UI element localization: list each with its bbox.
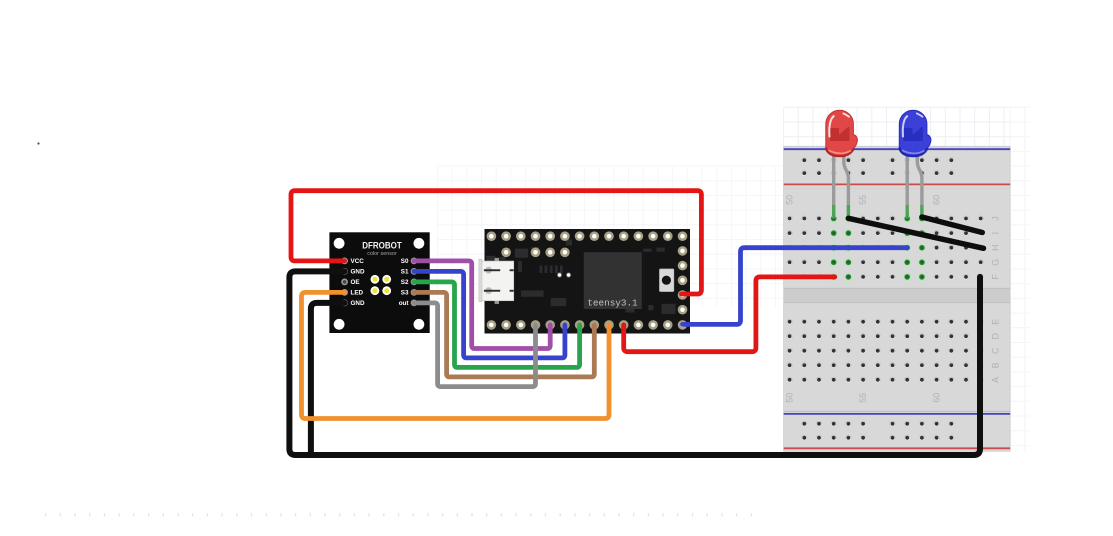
svg-text:F: F bbox=[991, 274, 1001, 280]
svg-text:J: J bbox=[991, 216, 1001, 221]
svg-text:C: C bbox=[991, 347, 1001, 354]
svg-text:H: H bbox=[991, 244, 1001, 251]
svg-text:G: G bbox=[991, 259, 1001, 266]
svg-text:55: 55 bbox=[858, 393, 868, 403]
svg-text:D: D bbox=[991, 333, 1001, 340]
svg-text:E: E bbox=[991, 319, 1001, 325]
svg-text:50: 50 bbox=[785, 195, 795, 205]
svg-text:50: 50 bbox=[785, 393, 795, 403]
svg-text:S2: S2 bbox=[401, 279, 409, 286]
svg-text:LED: LED bbox=[351, 290, 364, 297]
svg-text:GND: GND bbox=[351, 269, 365, 276]
svg-text:teensy3.1: teensy3.1 bbox=[587, 297, 638, 308]
svg-text:DFROBOT: DFROBOT bbox=[362, 240, 402, 250]
svg-text:S3: S3 bbox=[401, 290, 409, 297]
svg-text:VCC: VCC bbox=[351, 258, 365, 265]
svg-text:OE: OE bbox=[351, 279, 360, 286]
svg-text:I: I bbox=[991, 232, 1001, 235]
svg-text:60: 60 bbox=[932, 195, 942, 205]
svg-text:55: 55 bbox=[858, 195, 868, 205]
svg-text:60: 60 bbox=[932, 393, 942, 403]
svg-text:out: out bbox=[399, 300, 410, 307]
svg-text:S0: S0 bbox=[401, 258, 409, 265]
svg-text:A: A bbox=[991, 377, 1001, 383]
svg-text:color sensor: color sensor bbox=[367, 251, 397, 257]
svg-text:GND: GND bbox=[351, 300, 365, 307]
svg-text:S1: S1 bbox=[401, 269, 409, 276]
svg-text:B: B bbox=[991, 362, 1001, 368]
